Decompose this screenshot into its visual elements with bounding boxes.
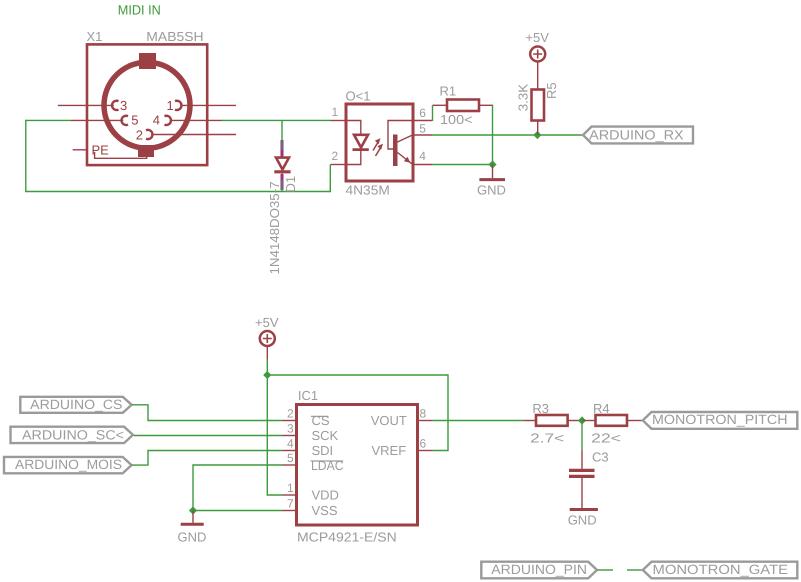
svg-text:2: 2 — [136, 128, 143, 143]
IC1 pin 2 CS (stub, number, name with overline) — [283, 407, 330, 429]
supply +5V symbol (top) — [530, 47, 545, 62]
svg-text:R1: R1 — [440, 84, 457, 99]
svg-text:SDI: SDI — [312, 443, 334, 458]
svg-text:100<: 100< — [440, 112, 473, 127]
IC1 pin 1 VDD (stub, number, name) — [283, 481, 339, 503]
wire ARDUINO_PIN stub — [598, 569, 614, 571]
junction GND node — [488, 160, 496, 168]
svg-text:LDAC: LDAC — [311, 458, 344, 473]
svg-text:O<1: O<1 — [346, 89, 371, 104]
OK1 pin 5 (stub, number) — [413, 122, 432, 136]
wire up to OK1 pin2 — [329, 165, 331, 193]
svg-text:4: 4 — [153, 112, 160, 127]
X1 pin 4 (number, arc, lead) — [153, 112, 222, 127]
resistor R3 — [523, 415, 582, 426]
net flag ARDUINO_MOIS — [4, 457, 132, 474]
svg-text:3: 3 — [120, 98, 127, 113]
wire OK1 pin5 to ARDUINO_RX — [432, 134, 583, 136]
wire +5V junction to VREF loop — [267, 375, 448, 451]
wire junction down to C3 — [581, 421, 583, 451]
svg-text:D1: D1 — [283, 176, 298, 193]
IC1 pin 7 VSS (stub, number, name) — [283, 497, 338, 519]
svg-text:2: 2 — [287, 407, 294, 421]
wire X1 pin4 to OK1 pin1 — [222, 119, 331, 121]
X1 pin 1 (number, arc, lead) — [167, 98, 237, 113]
net flag ARDUINO_SC< — [11, 427, 133, 443]
IC1 pin 4 SDI (stub, number, name) — [283, 437, 334, 459]
net flag ARDUINO_RX — [583, 127, 693, 144]
IC1 pin 3 SCK (stub, number, name) — [283, 422, 339, 444]
svg-text:MIDI IN: MIDI IN — [118, 3, 161, 18]
wire OK1 pin4 to GND junction — [432, 164, 493, 166]
svg-text:22<: 22< — [591, 431, 621, 446]
svg-text:VSS: VSS — [312, 503, 338, 518]
svg-text:2.7<: 2.7< — [530, 431, 564, 446]
svg-text:VDD: VDD — [312, 488, 339, 503]
svg-text:4N35M: 4N35M — [346, 183, 390, 198]
net flag MONOTRON_PITCH — [643, 412, 798, 429]
IC1 outline box — [297, 405, 418, 526]
supply +5V symbol (bottom) — [260, 331, 275, 346]
OK1 pin 6 (stub, number) — [413, 106, 432, 121]
wire diode top segment — [281, 120, 283, 150]
resistor R1 — [433, 100, 493, 112]
svg-text:5: 5 — [131, 112, 138, 127]
svg-text:6: 6 — [419, 106, 426, 120]
svg-text:1: 1 — [167, 98, 174, 113]
svg-text:3: 3 — [287, 422, 294, 436]
svg-text:ARDUINO_PIN: ARDUINO_PIN — [491, 562, 587, 577]
svg-text:GND: GND — [477, 183, 506, 198]
OK1 light arrows — [373, 138, 383, 156]
svg-text:1: 1 — [332, 105, 339, 119]
svg-text:+5V: +5V — [525, 30, 549, 45]
junction IC1 GND node — [189, 506, 197, 514]
svg-text:MONOTRON_GATE: MONOTRON_GATE — [653, 562, 789, 577]
wire R1 right down to GND junction — [492, 105, 494, 165]
IC1 pin 6 VREF (stub, number, name) — [372, 437, 433, 459]
svg-text:ARDUINO_MOIS: ARDUINO_MOIS — [15, 457, 122, 472]
IC1 pin 5 LDAC (stub, number, name with overline) — [283, 451, 344, 473]
diode D1 cathode lead (magenta band) — [281, 174, 284, 190]
svg-text:R3: R3 — [532, 401, 549, 416]
svg-text:2: 2 — [332, 149, 339, 163]
OK1 pin 1 (stub, number) — [331, 105, 347, 121]
optocoupler OK1 outline box — [346, 104, 413, 181]
wire ARDUINO_CS to IC1 pin2 — [132, 405, 283, 421]
svg-text:5: 5 — [419, 122, 426, 136]
OK1 pin 2 (stub, number) — [331, 149, 347, 165]
resistor R5 — [532, 62, 545, 135]
svg-text:C3: C3 — [592, 450, 609, 465]
wire X1 pin5 to left loop — [26, 119, 71, 121]
svg-text:CS: CS — [312, 413, 330, 428]
resistor R4 — [582, 415, 643, 426]
net flag ARDUINO_CS — [20, 397, 131, 413]
ground GND symbol (under IC1) — [181, 511, 204, 525]
X1 pin PE (text, lead, trace to shield notch) — [73, 143, 147, 159]
connector X1 outline box — [87, 44, 207, 165]
svg-text:MAB5SH: MAB5SH — [146, 29, 203, 44]
connector X1 DIN socket circle — [104, 62, 190, 148]
svg-text:GND: GND — [178, 530, 207, 545]
svg-text:IC1: IC1 — [298, 388, 318, 403]
connector X1 top key notch — [139, 53, 156, 69]
svg-text:MCP4921-E/SN: MCP4921-E/SN — [297, 530, 397, 545]
svg-text:ARDUINO_SC<: ARDUINO_SC< — [22, 427, 124, 442]
svg-text:1: 1 — [287, 481, 294, 495]
svg-text:3.3K: 3.3K — [515, 84, 530, 112]
capacitor C3 — [569, 470, 595, 476]
diode D1 cathode lead (red core) — [281, 174, 283, 180]
ground GND symbol (under OK1) — [479, 165, 505, 180]
diode D1 symbol — [274, 158, 290, 172]
wire MONOTRON_GATE stub — [627, 569, 643, 571]
wire bottom loop horizontal — [25, 191, 330, 193]
junction +5V node — [263, 371, 271, 379]
wire OK1 pin6 up to R1 — [432, 105, 434, 121]
OK1 phototransistor — [388, 121, 413, 167]
svg-text:MONOTRON_PITCH: MONOTRON_PITCH — [652, 412, 788, 427]
OK1 pin 4 (stub, number) — [413, 149, 432, 165]
wire ARDUINO_MOIS to IC1 pin4 — [132, 451, 283, 466]
svg-text:1N4148DO35-7: 1N4148DO35-7 — [267, 182, 282, 275]
junction RX node — [533, 131, 541, 139]
net flag MONOTRON_GATE — [643, 562, 798, 579]
IC1 pin 8 VOUT (stub, number, name) — [371, 407, 433, 429]
wire IC1 VSS to GND junction — [193, 510, 283, 512]
wire IC1 LDAC to GND junction — [193, 465, 283, 511]
wire IC1 VOUT to R3 — [433, 420, 524, 422]
svg-text:ARDUINO_RX: ARDUINO_RX — [589, 127, 683, 142]
svg-text:6: 6 — [420, 437, 427, 451]
X1 pin 5 (arc, number, lead) — [71, 112, 139, 127]
diode D1 anode lead (red core) — [281, 150, 283, 157]
wire diode bottom segment — [281, 180, 283, 192]
svg-text:X1: X1 — [87, 29, 103, 44]
svg-text:R4: R4 — [593, 401, 610, 416]
net flag ARDUINO_PIN — [481, 562, 597, 579]
svg-text:5: 5 — [287, 451, 294, 465]
svg-text:4: 4 — [419, 149, 426, 163]
capacitor C3 top lead — [581, 450, 583, 469]
junction PITCH node — [578, 416, 586, 424]
X1 pin 3 (arc, number, lead) — [58, 98, 127, 113]
wire left loop vertical — [25, 120, 27, 192]
svg-text:7: 7 — [287, 497, 294, 511]
wire +5V junction down to VDD — [267, 359, 282, 495]
wire +5V stub to junction — [266, 347, 268, 360]
svg-text:VREF: VREF — [372, 443, 407, 458]
OK1 internal LED — [346, 121, 369, 165]
svg-text:+5V: +5V — [255, 315, 279, 330]
ground GND symbol (under C3) — [570, 508, 598, 511]
capacitor C3 bottom lead — [581, 478, 583, 508]
X1 pin 2 (number, arc, lead) — [136, 128, 236, 143]
diode D1 anode lead (magenta band) — [281, 140, 284, 157]
svg-text:GND: GND — [568, 513, 597, 528]
connector X1 bottom shield notch — [138, 145, 154, 157]
svg-text:ARDUINO_CS: ARDUINO_CS — [30, 397, 122, 412]
svg-text:4: 4 — [287, 437, 294, 451]
svg-text:8: 8 — [420, 407, 427, 421]
svg-text:R5: R5 — [544, 82, 559, 99]
svg-text:VOUT: VOUT — [371, 413, 407, 428]
wire ARDUINO_SC< to IC1 pin3 — [134, 435, 283, 437]
svg-text:SCK: SCK — [312, 428, 339, 443]
